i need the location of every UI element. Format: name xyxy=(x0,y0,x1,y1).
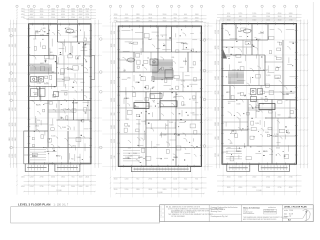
svg-text:1820: 1820 xyxy=(114,139,116,143)
svg-text:4550: 4550 xyxy=(218,61,220,65)
plan 2 grid lines xyxy=(102,8,212,197)
plan 3 fixtures xyxy=(243,29,263,102)
svg-text:600: 600 xyxy=(30,8,33,10)
svg-text:1820: 1820 xyxy=(252,19,256,21)
svg-text:1200: 1200 xyxy=(184,17,188,19)
svg-text:2730: 2730 xyxy=(21,17,25,19)
svg-text:1,820: 1,820 xyxy=(125,157,129,159)
svg-text:3100: 3100 xyxy=(85,8,89,10)
svg-text:2730: 2730 xyxy=(238,19,242,21)
svg-text:1200: 1200 xyxy=(125,21,129,23)
svg-text:4550: 4550 xyxy=(114,80,116,84)
svg-text:1,820: 1,820 xyxy=(42,28,46,30)
svg-text:3100: 3100 xyxy=(218,91,220,95)
svg-text:2400: 2400 xyxy=(21,8,25,10)
svg-text:WC: WC xyxy=(226,92,230,94)
plan 3 dark label box xyxy=(259,104,275,110)
svg-text:2730: 2730 xyxy=(12,78,14,82)
svg-text:1820: 1820 xyxy=(9,91,11,95)
plan 3 light partitions xyxy=(222,40,297,152)
svg-text:e info@candc.com: e info@candc.com xyxy=(264,211,277,213)
svg-text:2730: 2730 xyxy=(9,123,11,127)
svg-text:1820: 1820 xyxy=(9,78,11,82)
svg-text:3100: 3100 xyxy=(215,107,217,111)
svg-text:W.I.R: W.I.R xyxy=(36,105,41,107)
plan 3 grid lines xyxy=(206,8,308,195)
plan 2 grid bubbles top xyxy=(109,5,202,7)
svg-text:3,640: 3,640 xyxy=(62,127,66,129)
svg-text:LEVEL 3 FLOOR PLAN: LEVEL 3 FLOOR PLAN xyxy=(284,206,307,209)
svg-text:2730: 2730 xyxy=(40,186,44,188)
svg-text:2400: 2400 xyxy=(195,189,199,191)
svg-text:3100: 3100 xyxy=(215,122,217,126)
svg-text:4550: 4550 xyxy=(21,14,25,16)
svg-text:600: 600 xyxy=(163,17,166,19)
svg-text:3100: 3100 xyxy=(218,122,220,126)
svg-text:600: 600 xyxy=(278,114,281,116)
plan 2 fixtures xyxy=(127,58,173,99)
svg-text:12m²: 12m² xyxy=(129,42,134,45)
svg-text:910: 910 xyxy=(12,63,14,66)
svg-text:2400: 2400 xyxy=(111,125,113,129)
plan 1 interior walls xyxy=(24,24,91,164)
svg-text:BED: BED xyxy=(263,151,268,153)
plan 1 porch xyxy=(58,20,78,24)
svg-text:1820: 1820 xyxy=(79,176,83,178)
plan 3 grid bubbles top xyxy=(222,5,298,7)
svg-text:2400: 2400 xyxy=(289,13,293,15)
svg-text:1200: 1200 xyxy=(252,13,256,15)
plan 2 left dimension lines xyxy=(112,22,116,170)
plan 3 left dimension lines xyxy=(216,20,220,169)
svg-text:910: 910 xyxy=(158,107,161,109)
svg-text:4550: 4550 xyxy=(51,176,55,178)
plan 1 xyxy=(9,5,102,195)
svg-text:910: 910 xyxy=(275,56,278,58)
svg-text:3,640: 3,640 xyxy=(169,89,173,91)
plan 1 bottom dimension lines xyxy=(16,175,96,186)
svg-text:PROCEEDS ON SITE OR IN SHOP: PROCEEDS ON SITE OR IN SHOP xyxy=(171,212,195,214)
north arrow xyxy=(303,210,311,221)
svg-text:1820: 1820 xyxy=(215,61,217,65)
svg-text:2730: 2730 xyxy=(40,176,44,178)
svg-text:3100: 3100 xyxy=(15,123,17,127)
svg-text:3,640: 3,640 xyxy=(169,122,173,124)
svg-text:2400: 2400 xyxy=(9,62,11,66)
svg-text:910: 910 xyxy=(125,14,128,16)
plan 1 exterior wall xyxy=(29,24,91,164)
plan 2 room labels xyxy=(124,38,191,159)
svg-text:1,820: 1,820 xyxy=(237,93,241,95)
svg-text:1,820: 1,820 xyxy=(285,100,289,102)
svg-text:2400: 2400 xyxy=(85,176,89,178)
svg-text:2400: 2400 xyxy=(218,107,220,111)
svg-text:1820: 1820 xyxy=(61,17,65,19)
svg-text:3100: 3100 xyxy=(114,189,118,191)
svg-text:2400: 2400 xyxy=(184,21,188,23)
svg-text:2: 2 xyxy=(161,211,162,213)
svg-text:2400: 2400 xyxy=(215,76,217,80)
svg-text:4550: 4550 xyxy=(111,60,113,64)
svg-text:1200: 1200 xyxy=(21,176,25,178)
svg-text:4550: 4550 xyxy=(12,28,14,32)
svg-text:1820: 1820 xyxy=(136,189,140,191)
svg-text:3: 3 xyxy=(161,215,162,217)
plan 1 grid bubbles left xyxy=(10,34,13,148)
plan 2 top dimension lines xyxy=(110,15,207,23)
svg-text:910: 910 xyxy=(136,178,139,180)
svg-text:1820: 1820 xyxy=(12,123,14,127)
svg-text:910: 910 xyxy=(114,155,116,158)
plan 1 overall dimension xyxy=(23,191,95,192)
svg-text:ROBE: ROBE xyxy=(283,94,290,96)
svg-text:2400: 2400 xyxy=(278,176,282,178)
svg-text:18,640: 18,640 xyxy=(157,192,162,194)
plan 2 dark stores xyxy=(134,103,149,109)
svg-text:600: 600 xyxy=(174,17,177,19)
svg-text:4550: 4550 xyxy=(227,16,231,18)
svg-text:2400: 2400 xyxy=(184,189,188,191)
svg-text:2400: 2400 xyxy=(111,98,113,102)
plan 2 dense fixtures xyxy=(152,60,173,80)
svg-text:ROBE: ROBE xyxy=(72,103,79,105)
svg-text:drawn TP: drawn TP xyxy=(284,216,291,218)
svg-text:1: 1 xyxy=(161,207,162,209)
svg-text:9m²: 9m² xyxy=(148,38,152,41)
svg-text:910: 910 xyxy=(15,63,17,66)
svg-text:3100: 3100 xyxy=(9,107,11,111)
svg-text:2730: 2730 xyxy=(148,178,152,180)
svg-text:1820: 1820 xyxy=(61,8,65,10)
svg-text:3100: 3100 xyxy=(278,19,282,21)
plan 3 window jambs xyxy=(221,23,297,166)
svg-text:3,640: 3,640 xyxy=(133,153,137,155)
svg-text:1820: 1820 xyxy=(15,78,17,82)
svg-text:HALL: HALL xyxy=(124,97,130,100)
svg-text:910: 910 xyxy=(86,11,89,13)
svg-text:1200: 1200 xyxy=(173,178,177,180)
plan 1 grid bubbles top xyxy=(16,5,92,7)
svg-text:1200: 1200 xyxy=(51,186,55,188)
svg-text:600: 600 xyxy=(79,8,82,10)
svg-text:2400: 2400 xyxy=(148,189,152,191)
svg-text:1820: 1820 xyxy=(125,17,129,19)
svg-text:910: 910 xyxy=(75,36,78,38)
svg-text:910: 910 xyxy=(114,44,116,47)
svg-text:Class & Criterion: Class & Criterion xyxy=(243,206,261,209)
sheet right border xyxy=(312,2,314,222)
svg-text:2400: 2400 xyxy=(195,21,199,23)
svg-text:600: 600 xyxy=(52,11,55,13)
svg-text:1820: 1820 xyxy=(111,44,113,48)
svg-text:600: 600 xyxy=(230,143,233,145)
plan 3 top dimension lines xyxy=(217,14,302,22)
notes box xyxy=(11,207,160,223)
svg-text:1820: 1820 xyxy=(136,17,140,19)
svg-text:1820: 1820 xyxy=(163,189,167,191)
svg-text:3100: 3100 xyxy=(163,21,167,23)
svg-text:2400: 2400 xyxy=(266,19,270,21)
svg-text:910: 910 xyxy=(12,92,14,95)
svg-text:1200: 1200 xyxy=(30,186,34,188)
svg-text:1820: 1820 xyxy=(111,80,113,84)
plan 3 overall dimension xyxy=(217,191,300,192)
svg-text:600: 600 xyxy=(40,8,43,10)
svg-text:1820: 1820 xyxy=(227,187,231,189)
svg-text:3,640: 3,640 xyxy=(191,113,195,115)
svg-text:910: 910 xyxy=(114,17,117,19)
svg-text:600: 600 xyxy=(173,97,176,99)
svg-text:2730: 2730 xyxy=(218,30,220,34)
svg-text:910: 910 xyxy=(277,42,280,44)
title block frame xyxy=(160,205,314,222)
svg-text:13,940: 13,940 xyxy=(56,190,61,192)
svg-text:1,820: 1,820 xyxy=(274,136,278,138)
svg-text:3100: 3100 xyxy=(61,11,65,13)
svg-text:BED: BED xyxy=(174,157,179,159)
svg-text:1820: 1820 xyxy=(173,189,177,191)
plan 2 interior walls xyxy=(118,26,201,166)
svg-text:3100: 3100 xyxy=(278,16,282,18)
svg-text:4550: 4550 xyxy=(21,186,25,188)
svg-text:Morning Crest: Morning Crest xyxy=(211,210,222,213)
plan 2 balconies xyxy=(132,166,191,171)
plan 2 bottom dimension lines xyxy=(110,177,207,189)
svg-text:2730: 2730 xyxy=(85,17,89,19)
svg-text:3100: 3100 xyxy=(51,17,55,19)
svg-text:11m²: 11m² xyxy=(181,42,186,45)
svg-text:4550: 4550 xyxy=(9,154,11,158)
plan 3 exterior wall xyxy=(222,24,297,165)
svg-text:3100: 3100 xyxy=(15,44,17,48)
svg-text:1820: 1820 xyxy=(30,11,34,13)
plan 2 roof line over xyxy=(116,21,203,23)
svg-text:1820: 1820 xyxy=(215,46,217,50)
svg-text:4550: 4550 xyxy=(215,30,217,34)
svg-text:600: 600 xyxy=(166,125,169,127)
plan 3 grid bubbles left xyxy=(203,39,206,148)
plan 3 roof line over xyxy=(220,18,297,20)
svg-text:2730: 2730 xyxy=(173,14,177,16)
svg-text:910: 910 xyxy=(72,14,75,16)
revision strip xyxy=(160,209,165,217)
svg-text:2400: 2400 xyxy=(195,14,199,16)
svg-text:3100: 3100 xyxy=(15,137,17,141)
plan 3 balconies xyxy=(227,164,290,171)
svg-text:2400: 2400 xyxy=(136,21,140,23)
svg-text:LIV: LIV xyxy=(40,63,44,65)
svg-text:1200: 1200 xyxy=(30,176,34,178)
svg-text:600: 600 xyxy=(184,14,187,16)
svg-text:Developments Pty Ltd: Developments Pty Ltd xyxy=(211,215,228,218)
svg-text:1820: 1820 xyxy=(114,60,116,64)
svg-text:1,820: 1,820 xyxy=(135,82,139,84)
svg-text:4550: 4550 xyxy=(227,19,231,21)
svg-text:600: 600 xyxy=(172,57,175,59)
svg-text:910: 910 xyxy=(114,113,116,116)
svg-text:2730: 2730 xyxy=(15,154,17,158)
svg-text:910: 910 xyxy=(215,137,217,140)
svg-text:2,730: 2,730 xyxy=(44,82,48,84)
svg-text:2400: 2400 xyxy=(40,17,44,19)
svg-text:600: 600 xyxy=(193,100,196,102)
plan 2 exterior wall xyxy=(118,26,201,166)
plan 3 dense fixtures xyxy=(228,72,244,84)
plan 1 roof line over xyxy=(27,18,92,20)
svg-text:3100: 3100 xyxy=(15,28,17,32)
svg-text:4550: 4550 xyxy=(61,14,65,16)
plan 1 left dimension lines xyxy=(10,20,17,168)
svg-text:910: 910 xyxy=(227,13,230,15)
plan 3 interior fittings xyxy=(225,28,298,161)
plan 1 fixtures xyxy=(31,29,75,97)
svg-text:910: 910 xyxy=(184,178,187,180)
svg-text:910: 910 xyxy=(52,148,55,150)
svg-text:1200: 1200 xyxy=(266,13,270,15)
svg-text:600: 600 xyxy=(163,178,166,180)
svg-text:2400: 2400 xyxy=(51,8,55,10)
svg-text:2730: 2730 xyxy=(252,187,256,189)
plan 2 right dimension lines xyxy=(204,22,208,170)
svg-text:8.2m²: 8.2m² xyxy=(35,30,41,33)
svg-text:910: 910 xyxy=(114,31,116,34)
plan 1 interior fittings xyxy=(32,28,90,162)
svg-text:1200: 1200 xyxy=(114,14,118,16)
svg-text:3100: 3100 xyxy=(148,17,152,19)
svg-text:910: 910 xyxy=(37,120,40,122)
svg-text:3,640: 3,640 xyxy=(265,132,269,134)
svg-text:2730: 2730 xyxy=(148,21,152,23)
svg-text:2730: 2730 xyxy=(218,46,220,50)
svg-text:910: 910 xyxy=(195,178,198,180)
svg-text:4550: 4550 xyxy=(111,139,113,143)
svg-text:3,640: 3,640 xyxy=(141,121,145,123)
svg-text:scale 1:100: scale 1:100 xyxy=(284,210,293,212)
svg-text:3100: 3100 xyxy=(266,187,270,189)
plan 1 balconies xyxy=(25,164,80,172)
svg-text:910: 910 xyxy=(9,44,11,47)
svg-text:9.1m²: 9.1m² xyxy=(65,31,71,34)
svg-text:BED: BED xyxy=(138,157,143,159)
svg-text:910: 910 xyxy=(183,105,186,107)
plan 1 top dimension lines xyxy=(16,9,96,19)
plan 3 interior walls xyxy=(222,24,297,165)
svg-text:1820: 1820 xyxy=(136,14,140,16)
plan 3 room labels xyxy=(226,30,289,153)
svg-text:BED: BED xyxy=(32,156,37,158)
svg-text:2730: 2730 xyxy=(289,176,293,178)
svg-text:1200: 1200 xyxy=(125,178,129,180)
svg-text:1200: 1200 xyxy=(125,189,129,191)
plan 2 overall dimension xyxy=(115,193,204,194)
svg-text:600: 600 xyxy=(228,103,231,105)
plan 1 lower-left extension xyxy=(24,131,29,164)
svg-text:4550: 4550 xyxy=(111,31,113,35)
notes column text xyxy=(166,206,223,218)
svg-text:600: 600 xyxy=(30,14,33,16)
svg-text:1,820: 1,820 xyxy=(266,75,270,77)
svg-text:910: 910 xyxy=(72,176,75,178)
plan 1 grid lines xyxy=(13,8,102,195)
svg-text:WC: WC xyxy=(34,94,38,96)
svg-text:600: 600 xyxy=(50,52,53,54)
svg-text:2730: 2730 xyxy=(278,187,282,189)
svg-text:3,640: 3,640 xyxy=(77,157,81,159)
svg-text:3,640: 3,640 xyxy=(236,103,240,105)
svg-text:OF THE DESIGNER: OF THE DESIGNER xyxy=(171,216,186,218)
svg-text:3,640: 3,640 xyxy=(276,77,280,79)
plan 1 dense fixtures xyxy=(30,65,52,73)
svg-text:LEVEL 3 FLOOR PLAN: LEVEL 3 FLOOR PLAN xyxy=(18,202,50,206)
svg-text:4550: 4550 xyxy=(252,16,256,18)
svg-text:13,940: 13,940 xyxy=(256,190,261,192)
svg-text:2730: 2730 xyxy=(238,13,242,15)
plan 1 window jambs xyxy=(28,23,92,165)
svg-text:910: 910 xyxy=(127,119,130,121)
svg-text:LIV: LIV xyxy=(238,62,242,64)
svg-text:14m²: 14m² xyxy=(276,66,281,69)
svg-text:1200: 1200 xyxy=(71,17,75,19)
plan 3 xyxy=(203,5,308,195)
svg-text:910: 910 xyxy=(40,14,43,16)
svg-text:3100: 3100 xyxy=(9,137,11,141)
plan 1 bay window xyxy=(91,56,95,80)
plan 3 stair arrow xyxy=(223,49,227,59)
svg-text:600: 600 xyxy=(239,16,242,18)
svg-text:600: 600 xyxy=(79,17,82,19)
svg-text:3,640: 3,640 xyxy=(163,135,167,137)
svg-text:2400: 2400 xyxy=(30,17,34,19)
plan 3 bottom dimension lines xyxy=(217,175,302,187)
svg-text:1200: 1200 xyxy=(266,16,270,18)
svg-text:3100: 3100 xyxy=(40,11,44,13)
svg-text:2400: 2400 xyxy=(71,8,75,10)
svg-text:2730: 2730 xyxy=(266,176,270,178)
svg-text:2400: 2400 xyxy=(71,186,75,188)
plan 2 grid bubbles left xyxy=(100,38,103,149)
svg-text:2730: 2730 xyxy=(15,107,17,111)
svg-text:910: 910 xyxy=(71,159,74,161)
architect column xyxy=(211,206,238,218)
svg-text:2730: 2730 xyxy=(289,19,293,21)
svg-text:1820: 1820 xyxy=(114,125,116,129)
svg-text:7.7m²: 7.7m² xyxy=(63,108,69,111)
svg-text:2400: 2400 xyxy=(21,11,25,13)
svg-text:1820: 1820 xyxy=(71,11,75,13)
plan 2 window jambs xyxy=(117,25,202,167)
svg-text:3100: 3100 xyxy=(148,14,152,16)
svg-text:600: 600 xyxy=(289,16,292,18)
svg-text:3,640: 3,640 xyxy=(50,124,54,126)
svg-text:9m²: 9m² xyxy=(260,31,264,34)
svg-text:4550: 4550 xyxy=(227,176,231,178)
svg-text:2730: 2730 xyxy=(215,153,217,157)
svg-text:1820: 1820 xyxy=(61,176,65,178)
svg-text:2400: 2400 xyxy=(9,28,11,32)
svg-text:1 : 100 3-1, 7: 1 : 100 3-1, 7 xyxy=(54,203,69,206)
svg-text:3100: 3100 xyxy=(218,76,220,80)
svg-text:600: 600 xyxy=(86,186,89,188)
plan 1 right dimension lines xyxy=(94,20,99,168)
svg-text:2400: 2400 xyxy=(79,14,83,16)
svg-text:BED: BED xyxy=(237,151,242,153)
svg-text:1820: 1820 xyxy=(85,14,89,16)
svg-text:4550: 4550 xyxy=(238,187,242,189)
plan 2 interior fittings xyxy=(122,31,199,163)
svg-text:1,820: 1,820 xyxy=(127,78,131,80)
plan 1 light partitions xyxy=(24,42,91,155)
svg-text:3,640: 3,640 xyxy=(276,148,280,150)
